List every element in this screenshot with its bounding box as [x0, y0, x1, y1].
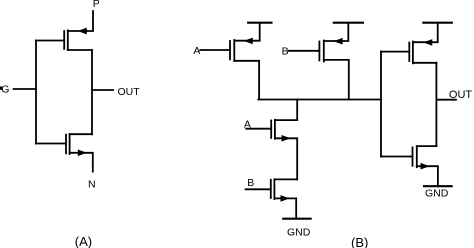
wire G input lead — [14, 88, 36, 90]
wire NAND output node (part B) — [258, 99, 381, 101]
svg-text:G: G — [1, 84, 9, 96]
wire inverter drain bus (part B) — [435, 63, 437, 146]
wire drain bus (part A) — [91, 50, 93, 134]
wire OUT lead (part B) — [436, 99, 456, 101]
transistor Q3 PMOS input A (part B) — [200, 23, 260, 100]
wire gate bus (part A) — [35, 41, 37, 144]
power bar VDD 2 (part B, over B-input PMOS) — [334, 22, 363, 24]
wire fragment at left image edge (cropped lead at node G) — [0, 86, 2, 89]
transistor Q2 NMOS (part A bottom) — [36, 134, 93, 172]
transistor Q1 PMOS (part A top) — [36, 11, 93, 50]
svg-text:(B): (B) — [351, 235, 368, 248]
svg-text:GND: GND — [425, 188, 449, 200]
svg-text:B: B — [282, 46, 289, 58]
svg-text:GND: GND — [287, 227, 311, 239]
svg-text:A: A — [244, 118, 251, 130]
transistor Q8 NMOS (part B inverter) — [381, 146, 438, 186]
svg-text:(A): (A) — [75, 234, 92, 248]
power bar VDD 3 (part B inverter) — [423, 22, 451, 24]
power bar VDD 1 (part B, over A-input PMOS) — [248, 22, 271, 24]
svg-text:B: B — [247, 177, 254, 189]
svg-text:N: N — [88, 178, 96, 190]
wire OUT lead (part A) — [92, 89, 113, 91]
transistor Q7 PMOS (part B inverter) — [381, 23, 438, 64]
transistor Q6 NMOS input B (part B stack bottom) — [246, 179, 298, 219]
svg-text:OUT: OUT — [118, 86, 141, 98]
svg-text:P: P — [93, 0, 100, 10]
ground bar (part B NAND stack) — [283, 218, 310, 220]
ground bar (part B inverter) — [424, 185, 452, 187]
svg-text:OUT: OUT — [449, 89, 473, 101]
svg-text:A: A — [193, 45, 200, 57]
transistor Q4 PMOS input B (part B) — [289, 23, 349, 100]
wire inverter gate bus (part B) — [380, 52, 382, 157]
transistor Q5 NMOS input A (part B stack top) — [246, 100, 297, 180]
